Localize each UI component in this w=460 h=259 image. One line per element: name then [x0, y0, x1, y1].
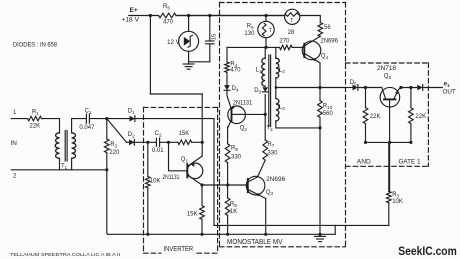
svg-text:2N696: 2N696 — [320, 38, 338, 44]
junction R6 top at horizontal — [264, 46, 267, 49]
transformer T2 core — [269, 55, 271, 127]
wire R3 ground return line — [214, 224, 389, 226]
svg-text:Q4: Q4 — [321, 54, 329, 60]
wire D1 clamp column down — [213, 119, 215, 226]
wire R4-270 horizontal — [227, 46, 280, 48]
svg-text:10K: 10K — [392, 199, 403, 205]
svg-text:L1: L1 — [256, 67, 262, 73]
transistor Q5 2N718 — [377, 66, 401, 142]
junction D5 output node — [364, 86, 367, 89]
svg-text:D5: D5 — [350, 80, 357, 86]
capacitor C2 0.01 — [152, 131, 164, 154]
svg-text:22K: 22K — [370, 114, 381, 120]
transformer T2 primary winding L1 — [256, 58, 265, 86]
capacitor C 15 bottom lead — [209, 44, 211, 62]
wire R10 column to ground rail — [319, 128, 321, 234]
wire zener bottom lead — [188, 51, 190, 62]
wire R2 node down to ground rail — [106, 170, 109, 235]
label INVERTER — [164, 244, 194, 253]
watermark SeekIC.com — [398, 244, 457, 258]
svg-text:470: 470 — [163, 20, 174, 26]
wire 22K bottoms tie — [366, 141, 411, 143]
svg-text:T1: T1 — [61, 164, 68, 170]
svg-text:AND: AND — [357, 159, 371, 166]
wire T2 center tap to output row — [275, 86, 346, 89]
svg-text:2N1131: 2N1131 — [233, 100, 253, 106]
svg-text:470: 470 — [230, 68, 241, 74]
resistor R2 220 — [105, 119, 120, 170]
node input terminal 2 — [13, 174, 17, 180]
wire raw feed vertical to Q1 emitter — [201, 94, 203, 156]
transformer T1 primary winding — [55, 133, 59, 159]
svg-text:E+: E+ — [130, 7, 138, 14]
wire Q4 emitter down to tap — [319, 63, 321, 88]
wire T2 left lead to R7 — [264, 95, 266, 140]
wire Q5 collector node to 22K right — [401, 87, 417, 89]
wire Q2 collector to T2 — [245, 113, 265, 115]
wire R7 to Q3 collector — [258, 160, 266, 177]
transistor Q3 2N696 — [246, 176, 286, 198]
wire Q3 emitter to ground rail — [265, 199, 267, 235]
transformer T2 label — [266, 125, 273, 131]
svg-text:+18 V: +18 V — [122, 17, 140, 24]
resistor 15K inverter collector load — [187, 185, 205, 234]
transformer T1 secondary winding — [72, 133, 76, 159]
svg-text:0.047: 0.047 — [79, 125, 95, 131]
resistor R4 470 — [225, 47, 241, 85]
svg-text:220: 220 — [109, 150, 120, 156]
svg-text:15K: 15K — [187, 212, 198, 218]
wire output row monostable to AND — [346, 87, 353, 89]
svg-text:Q2: Q2 — [240, 126, 248, 132]
svg-text:T: T — [269, 28, 272, 34]
junction node after C1 — [105, 117, 108, 120]
svg-text:R5: R5 — [163, 4, 170, 10]
wire 15K to feed column — [192, 141, 203, 143]
resistor R1 22K — [28, 110, 42, 130]
junction 10K at ground rail — [146, 233, 149, 236]
monostable box dashed outline — [220, 3, 346, 247]
zener diode 12V regulator — [167, 31, 199, 51]
wire T1 secondary bottom lead — [71, 158, 73, 169]
diode D5 — [350, 80, 358, 90]
svg-text:12 V: 12 V — [167, 39, 181, 46]
svg-text:D2: D2 — [128, 132, 135, 138]
inverter box dashed outline — [144, 107, 218, 253]
junction Q5 collector at output row — [399, 86, 402, 89]
junction on rail at raw feed branch — [149, 14, 152, 17]
wire C1 to node — [89, 118, 106, 120]
svg-text:e1: e1 — [444, 82, 450, 88]
resistor thermistor R6 130 — [244, 16, 274, 48]
node E+ terminal label — [122, 7, 140, 24]
junction Q5 emitter at tie — [388, 141, 391, 144]
resistor 22K right — [409, 88, 426, 143]
svg-text:0.01: 0.01 — [152, 148, 164, 154]
junction R8 R9 base node — [226, 183, 229, 186]
svg-text:R8: R8 — [231, 145, 238, 151]
ground symbol on bottom rail — [315, 233, 326, 242]
junction tap at Q4 emitter column — [318, 86, 321, 89]
svg-text:10K: 10K — [150, 179, 161, 185]
wire input bottom lead — [11, 169, 107, 171]
transformer T2 secondary winding L2 top — [276, 58, 286, 78]
svg-text:1K: 1K — [230, 209, 237, 215]
svg-text:R1: R1 — [32, 110, 39, 116]
resistor 22K left — [363, 88, 380, 143]
label GATE 1 — [399, 159, 421, 166]
wire T2 right lead middle — [275, 78, 277, 99]
resistor R5 470 — [159, 4, 177, 25]
svg-text:R7: R7 — [267, 142, 274, 148]
wire 270 to Q4 base — [292, 46, 304, 48]
wire R1 to T1 primary — [42, 119, 60, 133]
svg-text:R2: R2 — [110, 142, 117, 148]
note DIODES : IN 658 — [13, 42, 58, 49]
junction R10 bottom — [318, 126, 321, 129]
svg-text:Q3: Q3 — [266, 190, 274, 196]
wire diagonal node to D2 level — [107, 119, 127, 143]
transformer T2 left lead top — [264, 47, 266, 58]
svg-text:C2: C2 — [155, 131, 162, 137]
svg-text:R3: R3 — [392, 192, 399, 198]
svg-text:D3: D3 — [254, 88, 261, 94]
thermistor T 28 in rail — [176, 9, 300, 36]
wire +18V rail left segment — [129, 15, 159, 17]
junction C2 to Q1 base branch — [167, 141, 170, 144]
resistor R7 330 — [263, 140, 278, 160]
wire T2 bottom lead — [276, 121, 320, 128]
wire D4 to Q2 base — [227, 91, 232, 110]
svg-text:56: 56 — [324, 25, 331, 31]
wire Q5 emitter to R3 — [388, 142, 391, 191]
junction Q2 collector at T2 lead — [264, 113, 267, 116]
diode D3 — [254, 87, 268, 94]
svg-text:330: 330 — [267, 151, 278, 157]
wire Q1 collector to monostable — [202, 184, 247, 186]
svg-text:SeekIC.com: SeekIC.com — [398, 244, 457, 258]
svg-text:DIODES : IN 658: DIODES : IN 658 — [13, 42, 58, 49]
resistor R10 560 — [318, 88, 334, 128]
junction on rail at R6 drop — [264, 14, 267, 17]
junction 15K to feed column — [201, 141, 204, 144]
transformer T1 core — [65, 131, 67, 162]
svg-text:22K: 22K — [30, 124, 41, 130]
wire Q1 base lead — [169, 142, 188, 171]
wire T2 right winding top drop — [275, 47, 277, 58]
capacitor C 15 top lead — [209, 16, 211, 42]
transformer T1 label — [61, 164, 68, 170]
diode D6 output — [417, 85, 442, 91]
junction node T1 bottom — [105, 168, 108, 171]
AND gate box dashed outline — [346, 63, 429, 166]
resistor 56 — [318, 23, 331, 37]
svg-text:560: 560 — [323, 111, 334, 117]
svg-text:GATE 1: GATE 1 — [399, 159, 421, 166]
wire D5 to Q5 base node — [358, 87, 382, 89]
junction 22K left bottom — [364, 141, 367, 144]
node input label IN — [11, 140, 18, 147]
svg-text:INVERTER: INVERTER — [164, 244, 194, 253]
capacitor C1 0.047 — [79, 109, 95, 132]
junction D2 to 10K — [146, 141, 149, 144]
svg-text:OUT: OUT — [443, 89, 456, 96]
ground symbol below zener — [183, 62, 194, 69]
junction Q1 collector node — [200, 183, 203, 186]
svg-text:Q1: Q1 — [181, 157, 189, 163]
svg-text:15K: 15K — [179, 131, 190, 137]
wire raw feed vertical from rail — [149, 16, 151, 95]
svg-text:R6: R6 — [247, 24, 254, 30]
wire raw feed horizontal — [150, 93, 202, 95]
diode D1 — [107, 109, 214, 122]
svg-text:L2: L2 — [279, 67, 285, 73]
junction Q3 emitter at rail — [264, 233, 267, 236]
wire zener top lead — [188, 16, 190, 32]
svg-text:270: 270 — [279, 39, 290, 45]
label MONOSTABLE MV — [227, 237, 283, 246]
svg-text:C1: C1 — [85, 109, 92, 115]
wire ground rail jog — [334, 225, 336, 234]
wire ground rail bottom — [108, 233, 336, 235]
wire input top lead — [11, 118, 27, 120]
svg-text:R10: R10 — [323, 103, 333, 109]
svg-text:330: 330 — [231, 154, 242, 160]
node input terminal 1 — [13, 110, 17, 116]
svg-text:2N1131: 2N1131 — [162, 175, 180, 181]
junction 15K at ground rail — [200, 233, 203, 236]
svg-text:MONOSTABLE MV: MONOSTABLE MV — [227, 237, 283, 246]
resistor 10K inverter bias — [146, 142, 161, 234]
svg-text:2N696: 2N696 — [266, 177, 286, 183]
svg-text:TELLAHUM SPEEDTRA COLLA LIC: TELLAHUM SPEEDTRA COLLA LIC A IB A II — [10, 252, 120, 257]
svg-text:22K: 22K — [415, 114, 426, 120]
wire T1 primary bottom lead — [59, 158, 61, 169]
wire T1 secondary top lead — [72, 119, 87, 133]
svg-text:R9: R9 — [230, 201, 237, 207]
resistor 270 — [279, 39, 292, 50]
junction R9 at ground rail — [226, 233, 229, 236]
faint footer text — [10, 252, 120, 257]
diode D4 — [224, 85, 239, 92]
junction on rail at zener branch — [187, 14, 190, 17]
wire +18V rail middle segment — [176, 15, 285, 17]
svg-text:D4: D4 — [232, 86, 239, 92]
transistor Q4 2N696 — [302, 36, 338, 63]
capacitor C 15 plates with value 15 — [206, 34, 218, 44]
transistor Q2 2N1131 — [228, 100, 253, 132]
label AND — [357, 159, 371, 166]
wire zener-cap ground tie — [189, 61, 210, 63]
svg-text:T2: T2 — [266, 125, 273, 131]
resistor R8 330 — [225, 127, 241, 185]
svg-text:28: 28 — [288, 30, 295, 36]
wire rail to 56 resistor corner — [300, 16, 321, 23]
svg-text:L2: L2 — [279, 104, 285, 110]
resistor R3 10K — [387, 142, 403, 225]
junction 22K right bottom — [409, 141, 412, 144]
wire C2 to 15K — [160, 141, 178, 143]
junction on rail at capacitor branch — [208, 14, 211, 17]
svg-text:D1: D1 — [128, 109, 135, 115]
transformer T2 secondary winding L2 bottom — [276, 99, 286, 122]
diode D2 — [127, 132, 157, 145]
svg-text:IN: IN — [11, 140, 18, 147]
svg-text:130: 130 — [244, 31, 255, 37]
transistor Q1 2N1131 — [162, 156, 202, 185]
svg-text:2N718: 2N718 — [377, 66, 397, 72]
resistor R9 1K — [225, 185, 237, 234]
svg-text:15: 15 — [212, 34, 218, 40]
node e1 OUT terminal — [443, 82, 456, 96]
resistor 15K coupling — [178, 131, 192, 145]
junction 22K right at output row — [409, 86, 412, 89]
svg-text:Q5: Q5 — [384, 73, 392, 79]
svg-text:T: T — [290, 18, 293, 24]
